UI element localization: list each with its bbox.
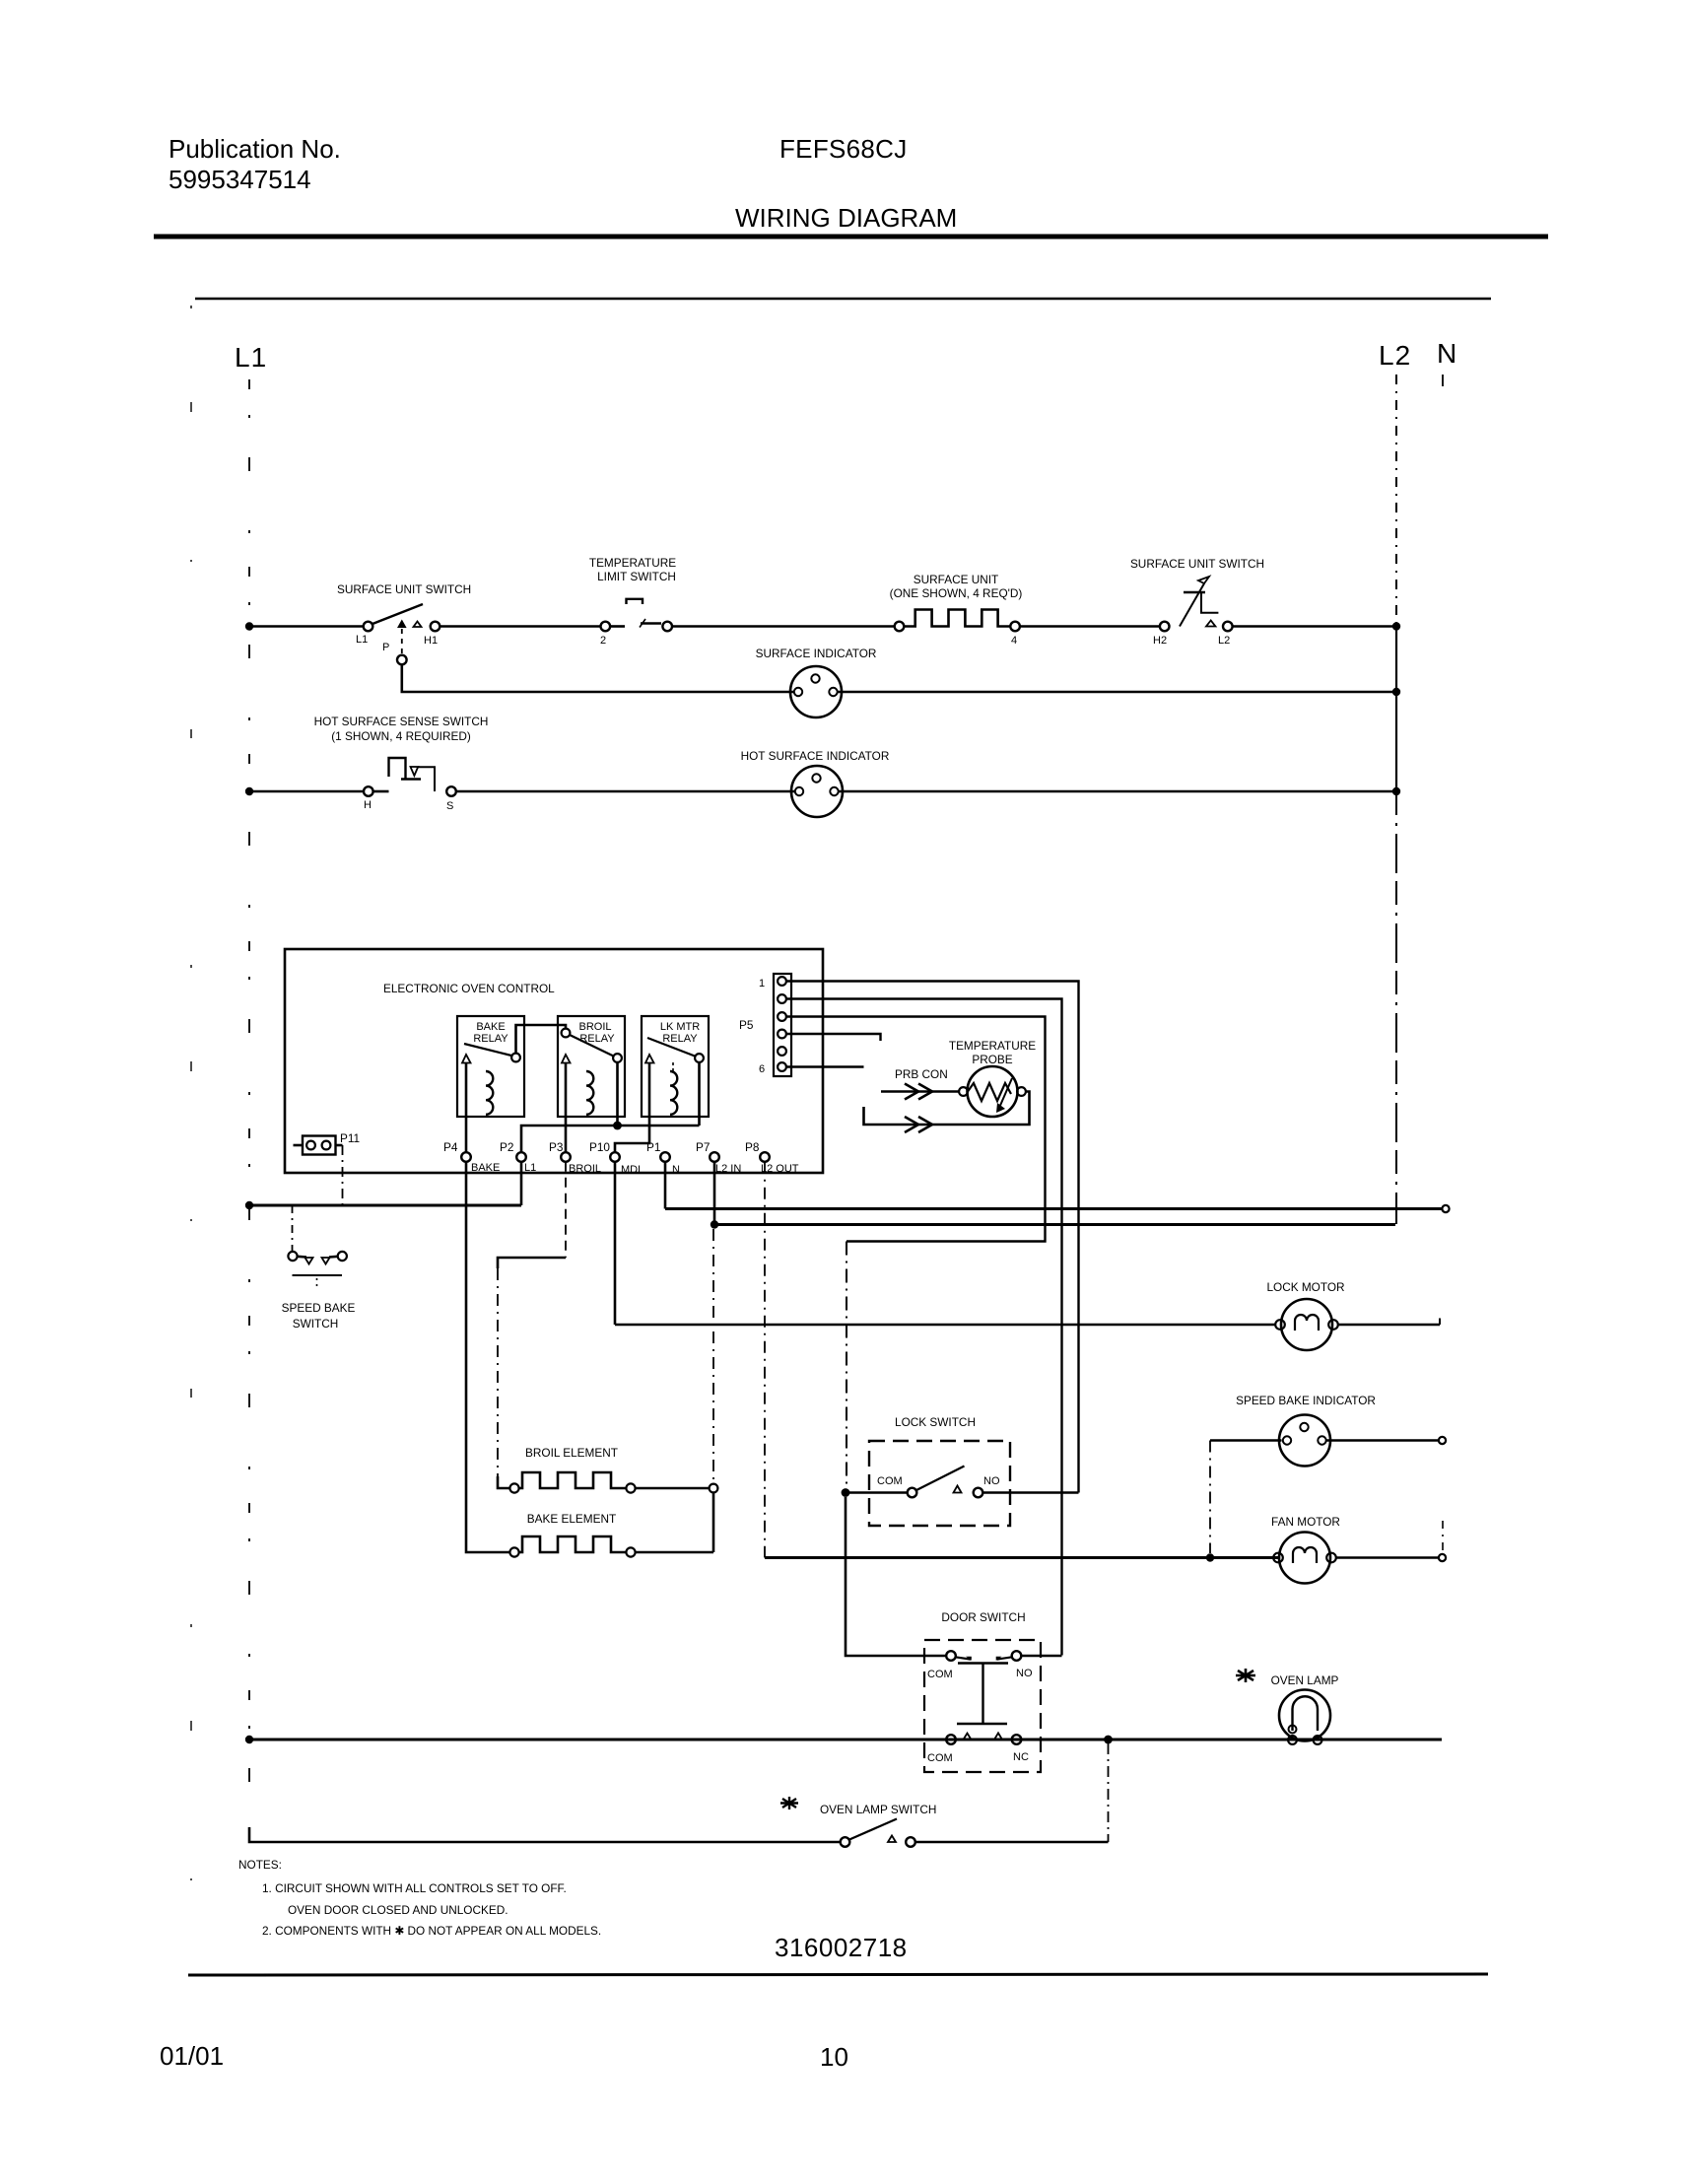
pin P3 xyxy=(561,1152,571,1162)
svg-text:1. CIRCUIT SHOWN WITH ALL CON: 1. CIRCUIT SHOWN WITH ALL CONTROLS SET T… xyxy=(262,1881,567,1895)
wire P7 to elements (dash-dot) xyxy=(712,1229,714,1484)
svg-text:LK MTR: LK MTR xyxy=(660,1021,700,1033)
fan motor body xyxy=(1279,1533,1330,1584)
surface unit heating element xyxy=(904,610,1010,627)
wire lock COM down to door switch xyxy=(846,1497,947,1656)
oven lamp switch left terminal xyxy=(841,1837,850,1847)
diagram left border (dash-dot, faint) xyxy=(190,306,192,1971)
bake relay contact circle xyxy=(511,1054,520,1062)
svg-text:NO: NO xyxy=(983,1475,1000,1487)
svg-text:LOCK MOTOR: LOCK MOTOR xyxy=(1266,1280,1344,1294)
oven lamp body xyxy=(1279,1690,1330,1741)
svg-text:COM: COM xyxy=(877,1475,903,1487)
oven lamp switch right terminal xyxy=(906,1837,915,1847)
broil relay coil xyxy=(586,1071,593,1115)
wire lamp switch to feed drop xyxy=(915,1841,1109,1844)
oven lamp filament xyxy=(1293,1696,1319,1731)
broil relay K2 box xyxy=(558,1016,625,1117)
N rail end terminal xyxy=(1442,1205,1449,1212)
lk mtr relay contact circle xyxy=(695,1054,704,1062)
L1 bus (dash-dot vertical) xyxy=(248,379,250,1842)
door switch lower NC terminal xyxy=(1012,1735,1022,1744)
svg-text:S: S xyxy=(446,800,453,812)
oven lamp filament end circle xyxy=(1289,1726,1297,1734)
svg-text:H2: H2 xyxy=(1153,635,1167,647)
bake element resistor xyxy=(519,1536,627,1552)
wire P3 drop (dashed) xyxy=(565,1162,567,1258)
broil element left terminal xyxy=(509,1483,518,1492)
wire speed bake indicator to N xyxy=(1326,1439,1439,1442)
door switch upper COM terminal xyxy=(946,1651,956,1661)
oven lamp right terminal xyxy=(1314,1736,1322,1744)
wire to L2 bus xyxy=(1233,625,1396,628)
svg-text:SURFACE UNIT SWITCH: SURFACE UNIT SWITCH xyxy=(337,582,471,596)
svg-text:P8: P8 xyxy=(745,1140,760,1154)
svg-text:SWITCH: SWITCH xyxy=(293,1317,339,1331)
hot surface indicator lamp xyxy=(791,766,843,817)
svg-text:SPEED BAKE: SPEED BAKE xyxy=(282,1301,356,1315)
probe right terminal xyxy=(1017,1087,1026,1096)
oven lamp left terminal xyxy=(1288,1736,1297,1744)
fan motor right terminal xyxy=(1326,1553,1336,1563)
oven lamp star xyxy=(1236,1669,1255,1682)
node L1 junction dot speed-bake rail xyxy=(245,1201,253,1209)
svg-text:L1: L1 xyxy=(235,342,267,373)
pin P8 xyxy=(760,1152,770,1162)
svg-text:HOT SURFACE INDICATOR: HOT SURFACE INDICATOR xyxy=(741,749,890,763)
wire broil relay triangle to P3 xyxy=(565,1063,568,1153)
svg-text:1: 1 xyxy=(759,978,765,990)
node L1 junction dot lamp rail xyxy=(245,1736,253,1743)
lk mtr relay triangle xyxy=(645,1055,654,1063)
broil relay arm xyxy=(570,1035,614,1057)
wire lock motor to N xyxy=(1338,1324,1440,1327)
speed bake switch bar xyxy=(293,1274,343,1276)
svg-text:ELECTRONIC OVEN CONTROL: ELECTRONIC OVEN CONTROL xyxy=(383,982,555,995)
probe resistor zigzag xyxy=(968,1083,1011,1101)
temperature limit switch stub xyxy=(610,625,625,628)
probe lower plug chevrons xyxy=(905,1117,932,1132)
surface unit switch arrow P (filled) xyxy=(397,620,407,629)
svg-text:SPEED BAKE INDICATOR: SPEED BAKE INDICATOR xyxy=(1236,1394,1376,1407)
lock motor left terminal xyxy=(1275,1320,1285,1330)
temperature probe body xyxy=(968,1066,1018,1117)
wire fan motor to N xyxy=(1336,1556,1439,1559)
wire surface indicator to L2 xyxy=(838,691,1397,694)
svg-text:OVEN DOOR CLOSED AND UNLOCKED.: OVEN DOOR CLOSED AND UNLOCKED. xyxy=(288,1903,508,1917)
lock motor wire end tick xyxy=(1439,1319,1441,1326)
wire fan rail P8 to fan motor xyxy=(765,1556,1279,1559)
wire speed bake indicator branch (dash-dot) xyxy=(1209,1441,1211,1554)
wire P7 drop xyxy=(713,1162,716,1225)
hot surface sense switch right link xyxy=(418,767,435,791)
svg-text:OVEN LAMP SWITCH: OVEN LAMP SWITCH xyxy=(820,1803,936,1816)
node L2 junction dot indicator row xyxy=(1392,688,1400,696)
wire P5 pin1 xyxy=(786,982,1079,1493)
svg-text:PROBE: PROBE xyxy=(972,1053,1012,1066)
svg-text:P1: P1 xyxy=(646,1140,660,1154)
svg-text:LOCK SWITCH: LOCK SWITCH xyxy=(895,1415,976,1429)
svg-text:L2 IN: L2 IN xyxy=(715,1163,741,1175)
bake relay K1 box xyxy=(457,1016,524,1117)
surface unit switch terminal H1 xyxy=(431,622,440,632)
temperature limit switch terminal 2 xyxy=(601,622,611,632)
wire speed-bake rail L1 to P2 xyxy=(249,1204,521,1207)
svg-text:Publication No.: Publication No. xyxy=(169,134,341,164)
temperature limit switch contact bar xyxy=(641,622,661,625)
surface unit switch right terminal L2 xyxy=(1223,622,1233,632)
svg-text:P4: P4 xyxy=(443,1140,458,1154)
svg-text:FAN MOTOR: FAN MOTOR xyxy=(1271,1515,1340,1529)
connector P5 pin 2 xyxy=(778,994,786,1003)
probe left terminal xyxy=(959,1087,968,1096)
svg-text:SURFACE UNIT: SURFACE UNIT xyxy=(914,573,999,586)
wire lamp rail xyxy=(249,1739,1442,1741)
pin P2 xyxy=(516,1152,526,1162)
N bus (sparse dash-dot) xyxy=(1442,375,1444,386)
probe arrow xyxy=(999,1078,1012,1108)
wire junction down to bake element xyxy=(712,1492,715,1552)
lock switch box (dashed) xyxy=(869,1441,1010,1526)
surface unit switch right terminal H2 xyxy=(1160,622,1170,632)
L2 bus solid segment xyxy=(1395,626,1397,791)
svg-text:P10: P10 xyxy=(589,1140,610,1154)
svg-text:N: N xyxy=(672,1164,680,1176)
surface unit switch right step xyxy=(1201,593,1218,613)
wire P tap down xyxy=(402,664,794,692)
wire P8 drop to fan rail (dash-dot) xyxy=(764,1162,766,1558)
lock motor winding xyxy=(1295,1315,1319,1331)
lk mtr relay arm xyxy=(647,1038,695,1057)
pin P1 xyxy=(660,1152,670,1162)
svg-text:TEMPERATURE: TEMPERATURE xyxy=(949,1039,1036,1053)
wire P5 pin3 xyxy=(786,1017,1046,1242)
wire P5 pin6 xyxy=(786,1065,864,1067)
svg-text:RELAY: RELAY xyxy=(473,1033,508,1045)
svg-text:N: N xyxy=(1437,338,1457,369)
wire P1 drop to N rail xyxy=(664,1162,667,1209)
wire P5 pin4 xyxy=(786,1034,881,1041)
svg-text:P3: P3 xyxy=(549,1140,564,1154)
node L1 junction dot row2 xyxy=(245,787,253,795)
connector P11 leads xyxy=(294,1144,304,1147)
wire lock motor rail xyxy=(615,1324,1276,1327)
speed bake switch left triangle xyxy=(305,1258,313,1264)
svg-text:6: 6 xyxy=(759,1063,765,1075)
node L1 junction dot row1 xyxy=(245,622,253,630)
node L2 junction dot row2 xyxy=(1392,787,1400,795)
wire N rail xyxy=(665,1207,1442,1210)
door switch box (dashed) xyxy=(924,1640,1041,1772)
wire P10 drop to lock motor rail xyxy=(614,1162,617,1325)
lock switch COM terminal xyxy=(908,1488,917,1498)
wire lk mtr contact down xyxy=(698,1062,701,1126)
svg-text:316002718: 316002718 xyxy=(775,1933,908,1962)
wire L1 bus corner to lamp switch xyxy=(249,1827,841,1842)
surface unit switch right arm hook xyxy=(1198,577,1209,583)
lk mtr relay K3 box xyxy=(642,1016,709,1117)
node fan rail junction (speed bake branch) xyxy=(1206,1553,1214,1561)
node lamp switch feed junction xyxy=(1104,1736,1113,1744)
connector P5 pin 5 xyxy=(778,1047,786,1056)
svg-text:5995347514: 5995347514 xyxy=(169,165,311,194)
fan motor left terminal xyxy=(1273,1553,1283,1563)
wire junction to COM xyxy=(846,1491,908,1494)
svg-text:2. COMPONENTS WITH ✱ DO NOT: 2. COMPONENTS WITH ✱ DO NOT APPEAR ON AL… xyxy=(262,1924,601,1938)
wire relay common bus to P2 xyxy=(521,1126,700,1153)
wire lamp feed (dash-dot) xyxy=(1108,1743,1110,1842)
wire NO to P5 pin1 drop xyxy=(982,1491,1078,1494)
wire P5 pin2 xyxy=(786,999,1062,1656)
fan motor winding xyxy=(1293,1547,1317,1563)
svg-text:OVEN LAMP: OVEN LAMP xyxy=(1271,1673,1339,1687)
bake element right terminal xyxy=(626,1547,635,1556)
surface unit left terminal xyxy=(895,622,905,632)
wire P2 drop xyxy=(520,1162,523,1205)
svg-text:HOT SURFACE SENSE SWITCH: HOT SURFACE SENSE SWITCH xyxy=(314,715,489,728)
svg-text:(ONE SHOWN, 4 REQ'D): (ONE SHOWN, 4 REQ'D) xyxy=(890,586,1023,600)
connector P11 pins xyxy=(306,1141,315,1150)
svg-text:BAKE: BAKE xyxy=(471,1162,500,1174)
wire broil relay contact down xyxy=(616,1062,619,1126)
surface unit right terminal 4 xyxy=(1010,622,1020,632)
svg-text:(1 SHOWN, 4 REQUIRED): (1 SHOWN, 4 REQUIRED) xyxy=(331,729,471,743)
bake relay triangle xyxy=(462,1055,471,1063)
wire P11 drop (dash-dot) xyxy=(342,1145,344,1205)
wire door NO up to fan rail xyxy=(1021,1655,1061,1658)
wire branch to indicator xyxy=(1210,1439,1282,1442)
svg-text:L2: L2 xyxy=(1379,340,1411,371)
svg-text:DOOR SWITCH: DOOR SWITCH xyxy=(941,1610,1025,1624)
probe lower lead xyxy=(864,1092,1030,1126)
L2 bus lower (dashed) xyxy=(1395,791,1397,1224)
speed bake switch drop (dashed) xyxy=(292,1205,294,1252)
svg-text:H: H xyxy=(364,799,372,811)
surface unit switch right cross tick xyxy=(1184,591,1205,594)
node L2 junction dot row1 xyxy=(1392,622,1400,630)
svg-text:L2: L2 xyxy=(1218,635,1230,647)
speed bake switch right triangle xyxy=(322,1258,330,1264)
door switch plunger xyxy=(957,1664,1008,1725)
connector P5 box xyxy=(774,974,791,1076)
probe upper lead xyxy=(881,1090,959,1093)
svg-text:MDL: MDL xyxy=(621,1164,643,1176)
door switch lower triangles xyxy=(964,1734,972,1740)
wire L2-in rail to L2 bus xyxy=(714,1223,1395,1226)
P tap terminal xyxy=(397,655,407,665)
svg-text:SURFACE INDICATOR: SURFACE INDICATOR xyxy=(756,647,877,660)
lock motor right terminal xyxy=(1328,1320,1338,1330)
svg-text:RELAY: RELAY xyxy=(662,1033,698,1045)
node P7 junction dot xyxy=(711,1220,718,1228)
bake relay coil xyxy=(486,1071,493,1115)
connector P5 pin 6 xyxy=(778,1062,786,1071)
wire L1 to hot surface sense switch xyxy=(249,790,364,793)
pin P7 xyxy=(710,1152,719,1162)
wire broil element to P7 drop xyxy=(636,1487,710,1490)
pin P10 xyxy=(610,1152,620,1162)
diagram bottom border xyxy=(188,1974,1488,1975)
surface indicator lamp xyxy=(790,666,842,717)
surface unit switch right arm xyxy=(1180,583,1204,627)
wire surface unit to right switch xyxy=(1020,625,1160,628)
temperature limit switch right terminal xyxy=(662,622,672,632)
speed bake switch left lead xyxy=(298,1256,306,1259)
temperature limit switch bimetal bracket xyxy=(627,599,643,604)
svg-text:L1: L1 xyxy=(356,634,368,646)
lock switch triangle xyxy=(954,1486,962,1493)
wire lk mtr triangle to P10 xyxy=(615,1063,649,1153)
surface unit switch right triangle xyxy=(1206,621,1215,627)
wire P4 drop to bake element xyxy=(466,1162,509,1552)
lock switch arm xyxy=(916,1467,965,1491)
svg-text:BROIL: BROIL xyxy=(569,1163,601,1175)
hot surface sense switch bimetal xyxy=(389,758,406,780)
wire P5 pin3 drop (dash-dot) xyxy=(846,1242,847,1493)
svg-text:FEFS68CJ: FEFS68CJ xyxy=(779,134,908,164)
svg-text:BAKE ELEMENT: BAKE ELEMENT xyxy=(527,1512,616,1526)
diagram top border xyxy=(195,298,1491,300)
lk mtr relay link (dashed) xyxy=(672,1062,674,1072)
surface unit switch terminal L1 xyxy=(364,622,373,632)
svg-text:01/01: 01/01 xyxy=(160,2041,224,2071)
broil relay triangle xyxy=(562,1055,571,1063)
svg-text:10: 10 xyxy=(820,2042,848,2072)
svg-text:WIRING DIAGRAM: WIRING DIAGRAM xyxy=(735,203,957,233)
speed bake switch right lead xyxy=(329,1256,338,1259)
lock motor body xyxy=(1281,1299,1332,1350)
speed bake switch left terminal xyxy=(288,1252,297,1261)
speed bake switch stem (dotted) xyxy=(316,1278,318,1290)
svg-text:L1: L1 xyxy=(524,1162,536,1174)
node relay common junction xyxy=(613,1122,622,1130)
door switch lower COM terminal xyxy=(946,1735,956,1744)
wire P tap (dashed) xyxy=(401,629,403,653)
svg-text:BROIL ELEMENT: BROIL ELEMENT xyxy=(525,1446,618,1460)
svg-text:COM: COM xyxy=(927,1752,953,1764)
oven lamp switch triangle xyxy=(888,1836,896,1843)
svg-text:H1: H1 xyxy=(424,635,438,647)
hot surface sense switch terminal S xyxy=(446,786,456,796)
broil relay input circle xyxy=(562,1029,571,1038)
wire bake relay contact to broil relay xyxy=(516,1025,567,1054)
svg-text:NC: NC xyxy=(1013,1751,1029,1763)
svg-text:P11: P11 xyxy=(340,1131,360,1145)
svg-text:P: P xyxy=(382,642,389,653)
hot surface sense switch terminal H xyxy=(364,786,373,796)
wire H1 to temperature limit switch xyxy=(440,625,600,628)
connector P5 pin 4 xyxy=(778,1030,786,1039)
wire bake relay triangle to P4 xyxy=(465,1063,468,1153)
surface unit switch small triangle xyxy=(414,622,422,628)
wire hot surface indicator to L2 xyxy=(839,790,1397,793)
pin P4 xyxy=(461,1152,471,1162)
svg-text:P7: P7 xyxy=(696,1140,710,1154)
connector P5 pin 1 xyxy=(778,977,786,986)
node lock switch COM junction xyxy=(842,1488,850,1497)
connector P5 pin 3 xyxy=(778,1012,786,1021)
wire limit switch to surface unit xyxy=(672,625,895,628)
bake element left terminal xyxy=(509,1547,518,1556)
svg-text:LIMIT SWITCH: LIMIT SWITCH xyxy=(597,570,676,583)
fan motor N terminal xyxy=(1439,1554,1446,1561)
L2 bus upper (dashed) xyxy=(1395,375,1397,626)
broil element resistor xyxy=(519,1472,627,1488)
wire L1 to surface unit switch xyxy=(249,625,364,628)
N bus dash near fan row xyxy=(1442,1521,1444,1553)
hot surface sense switch stub xyxy=(373,790,389,793)
connector P11 box xyxy=(303,1136,336,1155)
svg-text:2: 2 xyxy=(600,635,606,647)
oven lamp switch star xyxy=(780,1797,798,1809)
svg-text:P5: P5 xyxy=(739,1018,754,1032)
wire P3 to broil element xyxy=(498,1258,566,1268)
svg-text:SURFACE UNIT SWITCH: SURFACE UNIT SWITCH xyxy=(1130,557,1264,571)
svg-text:PRB CON: PRB CON xyxy=(895,1067,948,1081)
hot surface sense switch contact bar xyxy=(401,778,421,781)
svg-text:BROIL: BROIL xyxy=(578,1021,611,1033)
speed bake indicator lamp xyxy=(1279,1415,1330,1467)
door switch upper NO terminal xyxy=(1012,1651,1022,1661)
oven lamp switch arm xyxy=(849,1819,897,1840)
svg-text:L2 OUT: L2 OUT xyxy=(761,1163,799,1175)
svg-text:P2: P2 xyxy=(500,1140,513,1154)
lk mtr relay coil xyxy=(670,1071,677,1115)
svg-text:NOTES:: NOTES: xyxy=(238,1858,282,1872)
probe upper plug chevrons xyxy=(905,1084,932,1100)
header thick rule xyxy=(154,235,1548,239)
speed bake indicator N terminal xyxy=(1439,1437,1446,1444)
wire sense switch to hot surface indicator xyxy=(456,790,795,793)
broil relay contact circle xyxy=(613,1054,622,1062)
electronic oven control box xyxy=(285,949,823,1173)
hot surface sense switch triangle xyxy=(411,767,419,776)
svg-text:TEMPERATURE: TEMPERATURE xyxy=(589,556,676,570)
bake relay arm xyxy=(464,1044,511,1056)
broil element junction terminal xyxy=(710,1484,718,1493)
temperature limit switch contact tick xyxy=(640,619,645,628)
door switch upper contact marks xyxy=(956,1657,972,1659)
surface unit switch arm xyxy=(372,604,423,624)
lock switch NO terminal xyxy=(974,1488,983,1498)
svg-text:NO: NO xyxy=(1016,1668,1033,1679)
broil element right terminal xyxy=(626,1483,635,1492)
speed bake switch right terminal xyxy=(338,1252,347,1261)
svg-text:4: 4 xyxy=(1011,635,1017,647)
svg-text:COM: COM xyxy=(927,1669,953,1680)
svg-text:BAKE: BAKE xyxy=(476,1021,505,1033)
wire bake element to junction drop xyxy=(636,1551,713,1554)
